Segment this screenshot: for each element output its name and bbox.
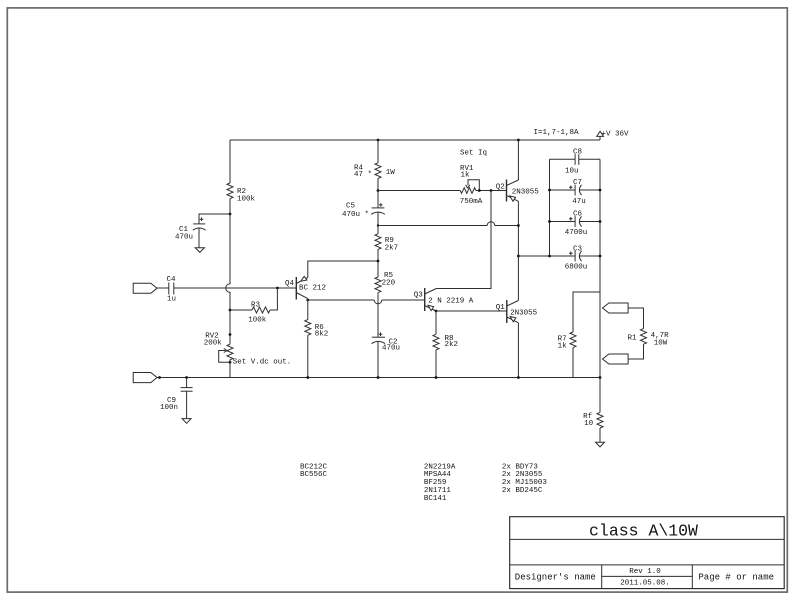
wire Q3 emitter to R8	[435, 311, 437, 334]
svg-text:750mA: 750mA	[460, 198, 483, 206]
wire capacitor bank left rail	[549, 159, 551, 256]
svg-text:2k2: 2k2	[445, 341, 459, 349]
node Q1 emitter rail	[517, 376, 520, 379]
wire capacitor bank right rail	[599, 159, 601, 377]
node R6 bottom	[306, 376, 309, 379]
node Q2 collector rail	[517, 139, 520, 142]
capacitor C2	[372, 332, 401, 352]
node Rf top	[599, 376, 602, 379]
wire R5 to C2	[377, 293, 379, 338]
resistor R2	[227, 183, 256, 204]
svg-text:Designer's name: Designer's name	[515, 572, 596, 582]
resistor R8	[433, 334, 458, 350]
svg-text:C8: C8	[573, 149, 582, 157]
node C6 right	[599, 220, 602, 223]
svg-text:Q1: Q1	[496, 304, 506, 312]
wire Q4 emitter to R9/R5 node	[308, 261, 378, 278]
node C3 right	[599, 255, 602, 258]
node C9 tap	[185, 376, 188, 379]
node RV2 top pin	[229, 333, 232, 336]
svg-text:220: 220	[382, 279, 396, 287]
resistor R4	[354, 163, 395, 179]
svg-text:R1: R1	[628, 335, 638, 343]
node R3 left	[229, 309, 232, 312]
wire C9 to ground	[186, 391, 188, 418]
svg-text:+V 36V: +V 36V	[602, 131, 630, 139]
capacitor C4	[167, 276, 177, 304]
svg-text:10: 10	[584, 420, 594, 428]
svg-text:1k: 1k	[461, 171, 471, 179]
svg-text:1k: 1k	[558, 343, 568, 351]
wire R2 bottom down with hop over input line	[226, 199, 230, 345]
svg-text:C7: C7	[573, 179, 582, 187]
svg-text:2x 2N3055: 2x 2N3055	[502, 471, 543, 479]
node R3 right	[276, 287, 279, 290]
wire Q2 collector to rail	[517, 140, 519, 180]
svg-text:8k2: 8k2	[315, 331, 329, 339]
svg-text:2N2219A: 2N2219A	[424, 463, 456, 471]
svg-text:BC 212: BC 212	[299, 285, 326, 293]
resistor R5	[375, 272, 396, 293]
wire C4 to Q4 base	[174, 287, 296, 289]
svg-text:200k: 200k	[204, 339, 223, 347]
node Q4 collector	[306, 299, 309, 302]
node Q3 collector top	[490, 189, 493, 192]
title block	[510, 517, 785, 589]
wire R7 top	[573, 292, 600, 332]
resistor R3	[230, 288, 277, 325]
potentiometer RV2	[204, 333, 233, 363]
wire C9 stub	[186, 378, 188, 388]
capacitor C5	[342, 203, 385, 219]
wire hop over C2 branch	[374, 300, 382, 304]
capacitor C3	[565, 246, 588, 272]
svg-text:100k: 100k	[248, 317, 267, 325]
power +V 36V symbol	[597, 131, 604, 140]
wire C1 to ground	[198, 228, 200, 248]
svg-text:2N1711: 2N1711	[424, 487, 452, 495]
node C1 tap	[229, 213, 232, 216]
wire hop over Q3 collector line	[487, 222, 495, 226]
svg-text:C5: C5	[346, 203, 356, 211]
wire Q4 collector to Q3 base with hop	[308, 299, 425, 301]
svg-text:MPSA44: MPSA44	[424, 471, 452, 479]
input flag lower	[133, 373, 157, 383]
node R4 bottom	[377, 189, 380, 192]
wire Q3 emitter to Q1 base	[436, 310, 507, 312]
wire Q4 collector to R6	[307, 299, 309, 320]
wire input to C4	[157, 287, 169, 289]
capacitor C6	[550, 211, 601, 238]
svg-text:class A\10W: class A\10W	[589, 522, 698, 541]
wire C1 tap	[199, 214, 230, 224]
transistor Q1	[496, 300, 538, 323]
node R8 bottom	[435, 376, 438, 379]
node Q3 emitter	[435, 310, 438, 313]
node R4 top	[377, 139, 380, 142]
wire C5 to R9	[377, 212, 379, 234]
wire Q3 collector up to RV1 node	[436, 191, 491, 289]
svg-text:Q4: Q4	[285, 280, 295, 288]
node C7 right	[599, 189, 602, 192]
transistor Q3	[414, 288, 474, 311]
svg-text:Q2: Q2	[496, 184, 505, 192]
node emitter Q4 junction	[377, 260, 380, 263]
svg-text:C3: C3	[573, 246, 583, 254]
node C3 left rail	[548, 255, 551, 258]
capacitor C7	[550, 179, 601, 206]
wire C2 to rail	[377, 342, 379, 378]
output flag lower	[603, 354, 629, 364]
wire rail to R2 top	[229, 140, 231, 183]
svg-text:10u: 10u	[565, 168, 579, 176]
transistor Q2	[496, 180, 540, 202]
svg-text:6800u: 6800u	[565, 264, 588, 272]
node C7 left	[548, 189, 551, 192]
wire R1 bottom to lower flag	[628, 344, 643, 359]
wire top supply rail	[230, 139, 600, 141]
svg-text:BF259: BF259	[424, 479, 447, 487]
resistor R7	[558, 332, 576, 351]
node rail start	[158, 376, 161, 379]
svg-text:1W: 1W	[386, 169, 396, 177]
ground below C1	[195, 248, 204, 253]
resistor R9	[375, 234, 398, 253]
svg-text:Set V.dc out.: Set V.dc out.	[233, 359, 292, 367]
resistor R1	[628, 329, 670, 348]
svg-text:Set Iq: Set Iq	[460, 150, 487, 158]
wire C3 row	[518, 255, 575, 257]
node y225 right	[517, 224, 520, 227]
capacitor C1	[175, 217, 206, 241]
resistor R6	[305, 320, 329, 339]
svg-text:100k: 100k	[237, 196, 256, 204]
input flag upper	[133, 283, 157, 293]
wire y225 to Q2 emitter with hop	[378, 225, 518, 227]
wire R9 to R5	[377, 249, 379, 277]
resistor Rf	[583, 412, 603, 428]
wire rail to Rf	[599, 378, 601, 413]
svg-text:2N3055: 2N3055	[512, 189, 540, 197]
wire RV2 bottom to rail	[229, 360, 231, 378]
svg-text:2x BDY73: 2x BDY73	[502, 463, 539, 471]
label equivalents list 3	[502, 463, 548, 495]
svg-text:2 N 2219 A: 2 N 2219 A	[428, 297, 474, 305]
svg-text:BC141: BC141	[424, 495, 447, 503]
wire Rf to ground	[599, 428, 601, 442]
capacitor C9	[160, 388, 193, 413]
svg-text:Q3: Q3	[414, 292, 424, 300]
node RV2 wiper	[229, 361, 232, 364]
node C6 left	[548, 220, 551, 223]
ground below C9	[182, 419, 191, 424]
svg-text:2011.05.08.: 2011.05.08.	[620, 579, 670, 587]
wire rail to R4	[377, 140, 379, 163]
capacitor C8	[550, 149, 601, 176]
svg-text:1u: 1u	[167, 296, 176, 304]
node C2 bottom	[377, 376, 380, 379]
wire upper flag to R1	[628, 308, 643, 329]
svg-text:BC212C: BC212C	[300, 463, 328, 471]
svg-text:470u: 470u	[175, 233, 193, 241]
transistor Q4	[285, 276, 326, 299]
svg-text:2x MJ15003: 2x MJ15003	[502, 479, 548, 487]
ground below Rf	[596, 442, 605, 447]
label equivalents list 2	[424, 463, 456, 503]
svg-text:47u: 47u	[572, 198, 586, 206]
wire R7 bottom to rail	[572, 348, 574, 378]
svg-text:470u: 470u	[382, 345, 400, 353]
wire Q2 emitter down to Q1 collector	[517, 201, 519, 300]
svg-text:BC556C: BC556C	[300, 471, 328, 479]
wire bottom rail	[157, 377, 600, 379]
svg-text:100n: 100n	[160, 404, 178, 412]
svg-text:2N3055: 2N3055	[510, 310, 538, 318]
node RV1 wiper	[478, 189, 481, 192]
wire R4 to C5	[377, 178, 379, 208]
node C3 row left end	[517, 255, 520, 258]
svg-text:4700u: 4700u	[565, 229, 588, 237]
label equivalents list 1	[300, 463, 328, 479]
wire Q1 emitter to rail	[517, 323, 519, 378]
svg-text:10W: 10W	[654, 340, 668, 348]
svg-text:Page # or name: Page # or name	[698, 572, 774, 582]
svg-text:47 *: 47 *	[354, 171, 372, 179]
svg-text:2x BD245C: 2x BD245C	[502, 487, 543, 495]
node y225 tap	[377, 224, 379, 226]
potentiometer RV1	[378, 165, 507, 206]
svg-text:2k7: 2k7	[385, 244, 399, 252]
svg-text:470u *: 470u *	[342, 211, 369, 219]
wire R6 bottom to rail	[307, 335, 309, 377]
svg-text:R3: R3	[251, 302, 261, 310]
svg-text:C4: C4	[167, 276, 177, 284]
svg-text:I=1,7-1,8A: I=1,7-1,8A	[534, 129, 580, 137]
svg-text:C6: C6	[573, 211, 583, 219]
svg-text:Rev 1.0: Rev 1.0	[629, 568, 661, 576]
wire R8 bottom to rail	[435, 350, 437, 378]
output flag upper	[603, 303, 629, 313]
